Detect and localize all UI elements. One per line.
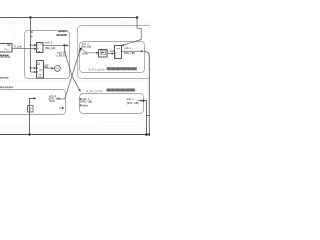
- label wire tag 2: [31, 36, 33, 38]
- label C2 title CJK smear: [107, 67, 137, 70]
- area C5 outer container right: [78, 26, 153, 79]
- block B2: [37, 61, 44, 79]
- block B1: [37, 43, 44, 53]
- wire branch into B2 input2: [31, 71, 36, 73]
- wire C2 output down right margin: [144, 51, 149, 134]
- svg-text:[Nm_v/B]: [Nm_v/B]: [124, 52, 135, 55]
- svg-text:T_Lnk: T_Lnk: [14, 45, 22, 48]
- wire B0 output T_Lnk: [12, 47, 36, 50]
- label B0 caption: [0, 55, 2, 57]
- svg-text:ia_Pro_press: ia_Pro_press: [86, 89, 103, 93]
- svg-text:[SVC_v/B]: [SVC_v/B]: [127, 102, 139, 105]
- wire C3 edge arrow low: [60, 107, 65, 109]
- node bus junction right1: [145, 133, 148, 136]
- node top bus right corner dot: [136, 16, 138, 18]
- wire top bus drop to C1: [30, 18, 32, 46]
- dashed vertical boundary left: [14, 26, 16, 56]
- svg-text:SvHz: SvHz: [49, 100, 56, 103]
- node B1 output junction: [63, 44, 65, 46]
- block B4: [115, 46, 122, 59]
- node bus junction right2: [148, 133, 150, 135]
- label left margin note2: [0, 87, 2, 89]
- block B4 inner mark: [117, 48, 121, 50]
- wire C2 dot to B3: [81, 49, 99, 53]
- wire diagonal down to C4: [64, 45, 80, 91]
- dashed separator line bottom: [0, 125, 150, 127]
- label wire tag 1: [31, 31, 33, 33]
- area C3 bottom-left container: [0, 90, 66, 115]
- wire branch into B2 input1: [31, 67, 36, 69]
- block E1 inner mark: [56, 68, 59, 69]
- wire C4 output to right vertical: [144, 101, 147, 135]
- label tiny above B2 wire: [45, 65, 49, 66]
- block B1 inner port ticks: [37, 44, 38, 49]
- svg-text:[SVC_v/B]: [SVC_v/B]: [81, 101, 93, 104]
- wire B1 output: [43, 44, 68, 46]
- svg-text:pch_1: pch_1: [45, 41, 53, 44]
- node branch dot: [30, 44, 32, 46]
- block B2 inner top tick: [38, 63, 40, 65]
- block B2 inner bottom marks: [38, 75, 42, 77]
- block B3 inner text: [101, 52, 104, 54]
- dashed separator line top: [0, 23, 150, 25]
- block B4 inner port ticks: [115, 52, 116, 57]
- label C1 title line1: [58, 30, 67, 32]
- wire diagonal up to C2: [65, 49, 81, 99]
- block B3 dead-zone: [99, 50, 108, 58]
- block B1 inner mark: [40, 43, 42, 45]
- svg-text:[Nm_w3]: [Nm_w3]: [81, 45, 91, 48]
- wire top bus drop to B4 in C2: [122, 17, 141, 45]
- node C4 output dot: [142, 100, 144, 102]
- wire vertical down inside C1: [30, 45, 32, 72]
- wire B4 output to C2 edge: [121, 50, 143, 52]
- dashed separator line mid2: [64, 88, 150, 90]
- svg-text:pch_v: pch_v: [124, 47, 132, 50]
- wire bottom bus: [0, 134, 150, 136]
- block E1 circle: [55, 66, 61, 72]
- wire C3 label to diagonal: [57, 98, 65, 100]
- svg-text:ia_Pro_press: ia_Pro_press: [88, 68, 105, 72]
- node branch dot 2: [30, 67, 32, 69]
- label C1 title line2: [56, 34, 67, 36]
- node C2 left port dot: [80, 48, 82, 50]
- svg-text:c_SB GE: c_SB GE: [56, 55, 67, 58]
- label B1 bottom tick: [38, 51, 40, 52]
- wire C3 elbow arrow: [30, 98, 36, 134]
- wire right margin stub: [147, 115, 151, 117]
- node bus junction left: [28, 133, 30, 135]
- label left margin note1: [0, 77, 2, 79]
- dashed separator line bottom-right faint: [98, 121, 150, 123]
- block B3 inner rect: [100, 51, 105, 55]
- svg-text:SvHz: SvHz: [82, 104, 89, 107]
- area C1 top-left container: [25, 31, 70, 79]
- wire top bus: [0, 17, 137, 19]
- wire branch into B1 input1: [31, 44, 37, 46]
- block B0 inner icon wave: [4, 49, 8, 50]
- block B0 inner icon top: [7, 45, 10, 46]
- wire C4 output: [137, 100, 143, 102]
- svg-text:[Nm_w3]: [Nm_w3]: [45, 47, 55, 50]
- block B2 inner port ticks: [37, 67, 38, 72]
- wire B2 output to scope circle: [43, 67, 54, 70]
- wire C4 port arrow 3: [80, 104, 82, 106]
- svg-text:pch_v: pch_v: [127, 98, 135, 101]
- svg-text:s_LnK: s_LnK: [107, 50, 115, 53]
- area C2 right-middle container: [80, 42, 145, 73]
- block B0 leftmost: [0, 44, 12, 53]
- dashed separator line mid1: [0, 80, 150, 82]
- node top bus junction: [29, 16, 31, 18]
- block B2 inner mid mark: [40, 69, 42, 71]
- block B5 inner marks: [29, 108, 32, 110]
- block B5 on vertical: [28, 106, 34, 113]
- area C4 bottom-right container: [80, 94, 144, 114]
- wire C4 port arrow 1: [80, 98, 82, 100]
- wire B3 to B4: [107, 53, 114, 55]
- label C4 heading CJK smear: [107, 89, 136, 92]
